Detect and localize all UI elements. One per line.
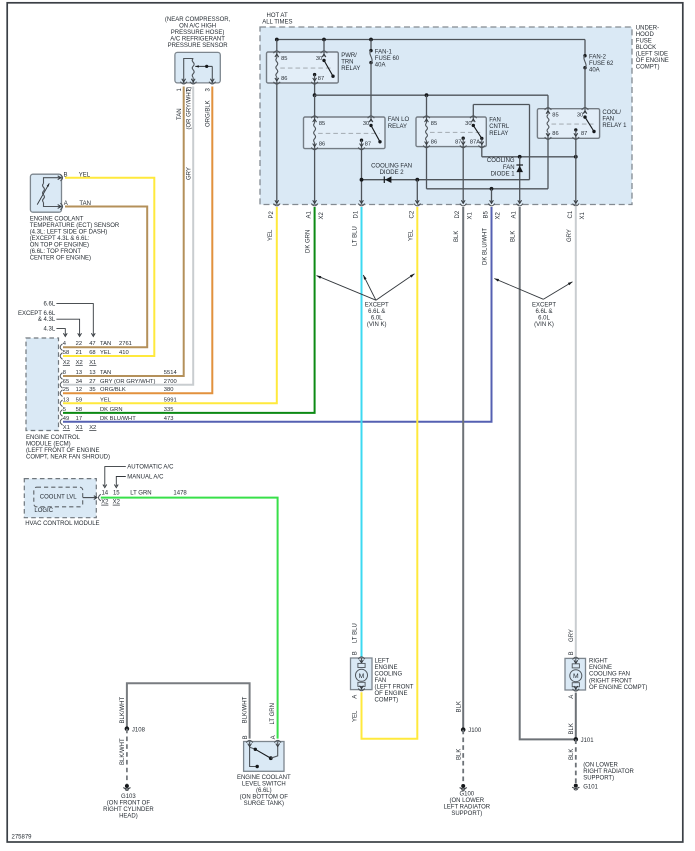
svg-text:ENGINE: ENGINE [589,665,612,671]
wire YEL circuit 5991 from P2 to ECM [63,207,277,403]
svg-text:1478: 1478 [173,491,187,497]
svg-text:LT BLU: LT BLU [352,623,358,643]
wire fuse2 to COOL/FAN1 pin30 [584,68,586,109]
svg-text:34: 34 [76,379,83,385]
relay PWR/TRN RELAY [267,51,339,84]
svg-text:5: 5 [63,407,66,413]
svg-text:FAN-2: FAN-2 [589,54,607,60]
wire FAN CNTRL 87A link to COOL/FAN1 87 [481,147,483,157]
svg-text:13: 13 [89,370,95,376]
svg-text:85: 85 [319,121,325,127]
svg-text:4.3L: 4.3L [44,327,56,333]
wire BLK from D2/X1 to splice J100 [462,207,464,730]
svg-text:47: 47 [89,341,95,347]
splice J100 [461,727,466,732]
svg-text:6.0L: 6.0L [538,316,550,322]
wire YEL circuit 410 ECT B to ECM [63,178,154,356]
ECM pin row 25 12 35 ORG/BLK 380 [60,387,173,396]
wire FAN CNTRL 30 jumper [472,105,474,118]
wire COOL/FAN1 87 to terminal C1/X1 [575,138,577,203]
ECM pin row 8 13 13 TAN 5514 [60,370,177,379]
svg-text:GRY: GRY [569,629,575,642]
svg-text:2761: 2761 [119,341,132,347]
label MANUAL A/C pointer [114,475,164,488]
wire GRY from C1/X1 to right fan B [575,207,577,657]
svg-text:COOLING: COOLING [487,158,515,164]
motor LEFT ENGINE COOLING FAN [351,657,373,691]
svg-text:RIGHT: RIGHT [589,658,608,664]
svg-text:P2: P2 [269,210,275,218]
svg-text:5991: 5991 [164,397,177,403]
wire TAN circuit 2761 ECT A to ECM [63,207,147,348]
svg-text:410: 410 [119,350,129,356]
svg-text:5514: 5514 [164,370,178,376]
svg-text:14: 14 [101,491,108,497]
wire DK GRN circuit 335 from A1/X2 to ECM [63,207,315,413]
svg-text:OF ENGINE: OF ENGINE [636,58,669,64]
svg-text:(OR GRY/WHT): (OR GRY/WHT) [187,87,193,130]
svg-text:LT BLU: LT BLU [353,226,359,246]
switch ENGINE COOLANT LEVEL SWITCH [244,740,284,771]
svg-text:TEMPERATURE (ECT) SENSOR: TEMPERATURE (ECT) SENSOR [30,223,120,229]
svg-text:COMPT): COMPT) [375,697,399,703]
wire bus drop to relay1 pin30 [323,40,325,53]
wire FAN LO 87 to terminal D1 [361,149,363,203]
svg-text:BLK: BLK [569,723,575,734]
svg-text:BLK: BLK [456,701,462,712]
svg-text:PRESSURE SENSOR: PRESSURE SENSOR [168,43,229,49]
fuse block bottom terminals [275,200,279,203]
svg-text:13: 13 [76,370,82,376]
svg-text:12: 12 [76,387,82,393]
svg-text:DK GRN: DK GRN [100,407,123,413]
wire C2 terminal drop [416,180,418,203]
block COOLNT LVL LOGIC inner dashed box [34,487,83,507]
svg-text:COOLING FAN: COOLING FAN [371,163,412,169]
svg-text:87A: 87A [470,139,480,145]
svg-text:COOLNT LVL: COOLNT LVL [40,495,77,501]
label AUTOMATIC A/C pointer [103,465,174,488]
wire BLK dashed J101 to G101 [575,739,577,783]
svg-text:COOLING: COOLING [375,671,403,677]
svg-text:22: 22 [76,341,82,347]
underhood fuse block dashed box [260,27,632,205]
wire hot bus [277,39,585,41]
svg-text:6.0L: 6.0L [371,316,383,322]
svg-text:473: 473 [164,416,174,422]
ECM pin row 49 17 DK BLU/WHT 473 [60,416,173,425]
node B5 junction [490,187,494,191]
svg-text:D2: D2 [455,210,461,218]
svg-text:OF ENGINE: OF ENGINE [375,691,408,697]
svg-text:ENGINE COOLANT: ENGINE COOLANT [237,775,291,781]
svg-text:MANUAL A/C: MANUAL A/C [127,475,164,481]
svg-text:(LEFT FRONT: (LEFT FRONT [375,684,414,690]
node diode2 on D1 wire [360,178,364,182]
wire LT BLU from D1 to left fan B [361,207,363,657]
wire coil ground link 86 pins to terminal B5/X2 [426,147,428,189]
label 4.3L column pointer [44,327,68,337]
svg-text:PRESSURE HOSE): PRESSURE HOSE) [171,30,225,36]
svg-text:FAN LO: FAN LO [388,117,410,123]
svg-text:58: 58 [63,350,69,356]
svg-text:68: 68 [89,350,95,356]
svg-text:GRY (OR GRY/WHT): GRY (OR GRY/WHT) [100,379,155,385]
svg-text:30: 30 [577,113,583,119]
svg-text:(RIGHT FRONT: (RIGHT FRONT [589,678,632,684]
svg-text:85: 85 [281,56,287,62]
svg-text:25: 25 [63,387,69,393]
svg-text:(NEAR COMPRESSOR,: (NEAR COMPRESSOR, [165,17,231,23]
node diode2 on C2 wire [415,178,419,182]
relay FAN LO RELAY [304,116,386,150]
svg-text:27: 27 [89,379,95,385]
node bus-30 [322,38,326,42]
svg-text:EXCEPT 6.6L: EXCEPT 6.6L [18,311,56,317]
svg-text:LT GRN: LT GRN [270,703,276,724]
motor RIGHT ENGINE COOLING FAN [565,657,586,691]
svg-text:87: 87 [581,131,587,137]
svg-text:LT GRN: LT GRN [130,491,151,497]
ground G100 [461,784,465,788]
svg-text:(ON BOTTOM OF: (ON BOTTOM OF [240,795,289,801]
svg-text:BLK/WHT: BLK/WHT [120,696,126,723]
svg-text:HOT AT: HOT AT [267,13,288,19]
svg-text:FAN: FAN [503,165,515,171]
wire ORG/BLK circuit 380 to ECM [63,87,212,394]
svg-text:FUSE: FUSE [636,38,652,44]
svg-text:HVAC CONTROL MODULE: HVAC CONTROL MODULE [25,521,99,527]
svg-text:RELAY 1: RELAY 1 [602,123,627,129]
wire fuse1 to FAN LO pin30 [370,63,372,117]
wire BLK/WHT switch B to splice J108 [127,683,250,738]
module HVAC CONTROL MODULE dashed box [24,479,96,518]
wire feed drop FAN LO 85 [314,95,316,117]
wire feed drop COOL/FAN1 85 [547,95,549,109]
svg-text:C1: C1 [568,210,574,218]
node bus-fuse1 [369,38,373,42]
svg-text:86: 86 [431,139,437,145]
svg-text:A: A [352,695,358,699]
svg-text:BLK: BLK [569,749,575,760]
splice J108 [125,726,130,731]
wire coil feed line [315,94,548,96]
svg-text:YEL: YEL [268,229,274,241]
svg-text:YEL: YEL [353,710,359,722]
svg-text:B: B [569,651,575,655]
svg-text:(ON FRONT OF: (ON FRONT OF [107,801,151,807]
svg-text:30: 30 [316,56,322,62]
wire BLK/WHT dashed J108 to G103 [126,729,128,784]
splice J101 [574,737,579,742]
svg-text:G101: G101 [583,785,598,791]
svg-text:GRY: GRY [187,167,193,180]
svg-text:87: 87 [318,76,324,82]
svg-text:380: 380 [164,387,174,393]
ECM pin row 5 58 DK GRN 335 [60,407,173,416]
svg-text:(4.3L: LEFT SIDE OF DASH): (4.3L: LEFT SIDE OF DASH) [30,230,108,236]
svg-text:DK GRN: DK GRN [306,230,312,253]
svg-text:2700: 2700 [164,379,177,385]
svg-text:D1: D1 [354,210,360,218]
callout EXCEPT 6.6L and 6.0L VIN K right [494,279,572,329]
svg-text:13: 13 [63,397,69,403]
node bus-85 [275,38,279,42]
svg-text:CENTER OF ENGINE): CENTER OF ENGINE) [30,256,91,262]
svg-text:ALL TIMES: ALL TIMES [262,19,292,25]
svg-text:YEL: YEL [408,229,414,241]
svg-text:(6.6L: TOP FRONT: (6.6L: TOP FRONT [30,249,82,255]
svg-text:M: M [573,673,579,680]
svg-text:(VIN K): (VIN K) [534,322,554,328]
wire YEL from C2 to left fan A [362,207,418,739]
wire GRY circuit 2700 to ECM [63,87,193,385]
node coil feed at FAN LO 85 [313,93,317,97]
svg-text:MODULE (ECM): MODULE (ECM) [26,441,71,447]
svg-text:8: 8 [63,370,66,376]
svg-text:335: 335 [164,407,174,413]
svg-text:LOGIC: LOGIC [34,508,53,514]
svg-text:ON TOP OF ENGINE): ON TOP OF ENGINE) [30,243,89,249]
svg-text:TAN: TAN [177,108,183,120]
svg-text:(EXCEPT 4.3L & 6.6L:: (EXCEPT 4.3L & 6.6L: [30,236,90,242]
svg-text:DIODE 2: DIODE 2 [380,170,405,176]
svg-text:(LEFT FRONT OF ENGINE: (LEFT FRONT OF ENGINE [26,448,99,454]
wire HVAC internal lead [83,497,97,499]
wire feed drop FAN CNTRL 85 [426,95,428,117]
wire DK BLU/WHT circuit 473 from B5/X2 to ECM [63,207,492,422]
wire BLK dashed J100 to G100 [462,730,464,784]
svg-text:(ON LOWER: (ON LOWER [583,762,618,768]
ECM pin row 13 59 YEL 5991 [60,397,177,406]
wire TAN circuit 5514 to ECM [63,87,184,377]
module ENGINE CONTROL MODULE (ECM) dashed box [26,338,59,431]
svg-text:BLK/WHT: BLK/WHT [120,738,126,765]
svg-text:COMPT, NEAR FAN SHROUD): COMPT, NEAR FAN SHROUD) [26,454,110,460]
svg-text:BLK: BLK [454,231,460,242]
svg-text:EXCEPT: EXCEPT [365,303,389,309]
svg-text:40A: 40A [375,62,386,68]
svg-text:TAN: TAN [100,370,111,376]
svg-text:15: 15 [113,491,120,497]
svg-text:FAN: FAN [375,678,387,684]
svg-text:X2: X2 [319,211,325,219]
svg-text:DIODE 1: DIODE 1 [491,171,516,177]
svg-text:G100: G100 [459,791,474,797]
svg-text:ENGINE: ENGINE [375,665,398,671]
svg-text:AUTOMATIC A/C: AUTOMATIC A/C [127,465,174,471]
callout EXCEPT 6.6L and 6.0L VIN K left [317,274,415,328]
svg-text:J108: J108 [132,727,146,733]
svg-text:A1: A1 [307,210,313,218]
svg-text:FAN: FAN [489,118,501,124]
svg-text:C2: C2 [409,210,415,218]
wire relay1-87 to coil feed line [314,83,316,95]
svg-text:& 4.3L: & 4.3L [38,317,56,323]
svg-text:LEFT: LEFT [375,658,390,664]
svg-text:65: 65 [63,379,69,385]
svg-text:X1: X1 [580,211,586,219]
svg-text:(VIN K): (VIN K) [367,322,387,328]
svg-text:LEVEL SWITCH: LEVEL SWITCH [242,782,286,788]
svg-text:86: 86 [281,76,287,82]
svg-text:17: 17 [76,416,82,422]
svg-text:86: 86 [552,131,558,137]
svg-text:(6.6L): (6.6L) [256,788,272,794]
wire diode2 link line [362,179,530,181]
ECM pin row 4 22 47 TAN 2761 [60,341,132,350]
sensor A/C REFRIGERANT PRESSURE SENSOR [175,52,220,84]
svg-text:B: B [243,735,249,739]
label EXCEPT 6.6L & 4.3L column pointer [18,311,82,336]
svg-text:FUSE 62: FUSE 62 [589,61,614,67]
svg-text:BLK: BLK [511,231,517,242]
wire LT GRN circuit 1478 HVAC to coolant level switch [101,498,278,739]
label 6.6L column pointer [44,302,96,337]
ground G101 [574,784,578,788]
svg-text:FUSE 60: FUSE 60 [375,56,400,62]
svg-text:A1: A1 [512,210,518,218]
svg-text:40A: 40A [589,67,600,73]
svg-text:DK BLU/WHT: DK BLU/WHT [100,416,136,422]
svg-text:COMPT): COMPT) [636,65,660,71]
svg-text:ENGINE CONTROL: ENGINE CONTROL [26,435,81,441]
svg-text:X2: X2 [496,211,502,219]
wire BLK right fan A to splice J101 [575,693,577,740]
svg-text:TAN: TAN [100,341,111,347]
svg-text:J101: J101 [581,738,595,744]
svg-text:B: B [352,651,358,655]
svg-text:RELAY: RELAY [341,66,360,72]
svg-text:YEL: YEL [100,397,112,403]
svg-text:HOOD: HOOD [636,32,655,38]
svg-text:87: 87 [455,139,461,145]
svg-text:YEL: YEL [100,350,112,356]
wire FAN LO 86 to terminal A1/X2 [314,149,316,203]
svg-text:COOLING FAN: COOLING FAN [589,672,630,678]
ground G103 [125,784,129,788]
svg-text:RELAY: RELAY [489,131,508,137]
svg-text:21: 21 [76,350,82,356]
svg-text:J100: J100 [468,728,482,734]
svg-text:EXCEPT: EXCEPT [532,303,556,309]
sensor ENGINE COOLANT TEMPERATURE (ECT) SENSOR [30,174,62,212]
svg-text:59: 59 [76,397,82,403]
svg-text:PWR/: PWR/ [341,53,357,59]
relay FAN CNTRL RELAY [416,116,486,148]
svg-text:SUPPORT): SUPPORT) [451,811,482,817]
svg-text:ENGINE COOLANT: ENGINE COOLANT [30,217,84,223]
svg-text:30: 30 [363,121,369,127]
svg-text:6.6L &: 6.6L & [535,309,552,315]
svg-text:275879: 275879 [12,835,33,841]
svg-text:FAN-1: FAN-1 [375,49,393,55]
svg-text:A: A [569,695,575,699]
fuse FAN-1 FUSE 60 40A [369,40,400,69]
svg-text:49: 49 [63,416,69,422]
node link at COOL/FAN1 87 wire [574,155,578,159]
svg-text:X1: X1 [467,211,473,219]
ECM pin row 58 21 68 YEL 410 [60,350,128,359]
wire FAN CNTRL 87 to terminal D2/X1 [462,147,464,203]
node diode1 top junction [518,155,522,159]
HVAC pins 14 15 [101,491,121,506]
svg-text:ORG/BLK: ORG/BLK [206,100,212,127]
svg-text:BLK/WHT: BLK/WHT [243,696,249,723]
svg-text:RIGHT RADIATOR: RIGHT RADIATOR [583,769,634,775]
svg-text:85: 85 [431,121,437,127]
svg-text:LEFT RADIATOR: LEFT RADIATOR [443,804,490,810]
svg-text:BLK: BLK [456,749,462,760]
svg-text:DK BLU/WHT: DK BLU/WHT [483,228,489,265]
svg-text:BLOCK: BLOCK [636,45,656,51]
svg-text:COOL/: COOL/ [602,110,621,116]
svg-text:ON A/C HIGH: ON A/C HIGH [179,24,216,30]
svg-text:35: 35 [89,387,95,393]
wire BLK from A1 to splice J101 [520,207,576,739]
svg-text:58: 58 [76,407,82,413]
svg-text:30: 30 [465,121,471,127]
relay COOL/FAN RELAY 1 [537,108,599,140]
svg-text:(LEFT SIDE: (LEFT SIDE [636,52,668,58]
svg-text:SUPPORT): SUPPORT) [583,775,614,781]
svg-text:HEAD): HEAD) [119,814,138,820]
svg-text:TRN: TRN [341,59,353,65]
svg-text:FAN: FAN [602,116,614,122]
svg-text:6.6L &: 6.6L & [368,309,385,315]
svg-text:CNTRL: CNTRL [489,124,510,130]
svg-text:G103: G103 [121,794,136,800]
svg-text:6.6L: 6.6L [44,302,56,308]
svg-text:B5: B5 [484,210,490,218]
svg-text:86: 86 [319,141,325,147]
fuse FAN-2 FUSE 62 40A [583,40,614,74]
diode COOLING FAN DIODE 2 [371,163,412,183]
svg-text:M: M [359,673,365,680]
svg-text:85: 85 [552,113,558,119]
svg-text:ORG/BLK: ORG/BLK [100,387,126,393]
svg-text:(ON LOWER: (ON LOWER [449,798,484,804]
svg-text:UNDER-: UNDER- [636,25,659,31]
wire bus drop to relay1 pin85 [276,40,278,53]
diode COOLING FAN DIODE 1 [487,157,523,203]
svg-text:SURGE TANK): SURGE TANK) [244,801,284,807]
svg-text:A: A [271,735,277,739]
svg-text:A/C REFRIGERANT: A/C REFRIGERANT [170,37,225,43]
svg-text:OF ENGINE COMPT): OF ENGINE COMPT) [589,685,647,691]
svg-text:GRY: GRY [567,229,573,242]
svg-text:RIGHT CYLINDER: RIGHT CYLINDER [103,807,154,813]
node coil feed at FAN CNTRL 85 [425,93,429,97]
wire relay1-86 to terminal P2 [276,83,278,203]
ECM pin row 65 34 27 GRY (OR GRY/WHT) 2700 [60,379,177,388]
svg-text:87: 87 [365,141,371,147]
svg-text:RELAY: RELAY [388,124,407,130]
